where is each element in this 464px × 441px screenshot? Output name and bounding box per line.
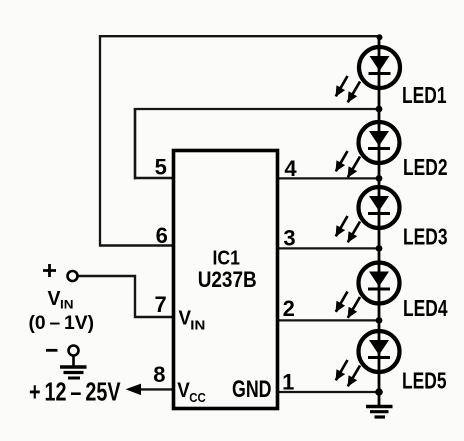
wire from + input terminal (78, 276, 174, 317)
wire LED chain vertical (378, 36, 381, 406)
wire pin5 horizontal (134, 177, 173, 180)
svg-text:1: 1 (282, 369, 294, 394)
node LED2-LED3 junction (376, 175, 383, 182)
wire pin2 to LED4/LED5 node (277, 319, 379, 321)
IC1 box (174, 151, 278, 409)
node top wire to LED1 lead (377, 34, 383, 40)
plus sign (43, 264, 56, 277)
LED1 (336, 47, 400, 102)
minus sign (46, 349, 58, 352)
svg-text:LED4: LED4 (403, 295, 448, 321)
node LED1-LED2 junction (376, 106, 383, 113)
node LED3-LED4 junction (376, 245, 383, 252)
node LED4-LED5 junction (376, 317, 383, 324)
ground (right, below LED5) (366, 407, 393, 418)
svg-text:LED2: LED2 (403, 154, 448, 180)
wire outer loop top horizontal (99, 35, 379, 37)
wire pin6 horizontal (100, 244, 173, 246)
svg-text:LED3: LED3 (403, 224, 448, 250)
svg-text:+ 12 – 25V: + 12 – 25V (29, 376, 121, 406)
svg-text:3: 3 (283, 226, 295, 251)
svg-text:8: 8 (153, 362, 165, 387)
wire pin5 loop vertical (134, 108, 137, 179)
svg-text:LED5: LED5 (402, 368, 447, 394)
svg-text:6: 6 (156, 223, 168, 248)
svg-text:CC: CC (189, 391, 206, 405)
svg-text:IN: IN (190, 317, 205, 332)
svg-text:7: 7 (154, 292, 166, 317)
LED5 (336, 331, 400, 386)
svg-text:4: 4 (284, 156, 297, 181)
LED2 (336, 122, 400, 177)
arrowhead on pin8 wire (126, 384, 142, 396)
svg-text:IN: IN (60, 298, 74, 312)
+ input terminal (68, 271, 78, 281)
wire outer loop vertical (99, 35, 101, 247)
wire pin4 to LED2/LED3 node (277, 177, 379, 179)
svg-text:(0 – 1V): (0 – 1V) (29, 313, 95, 334)
ground (left, at - terminal) (60, 356, 87, 379)
wire pin8 with arrowhead to +12-25V (140, 388, 174, 390)
- input terminal (69, 346, 79, 356)
svg-text:5: 5 (155, 155, 167, 180)
node ground junction (375, 388, 383, 396)
LED3 (336, 187, 400, 242)
svg-text:2: 2 (283, 296, 295, 321)
wire pin5 loop horizontal to LED1/LED2 node (134, 108, 379, 110)
svg-text:GND: GND (232, 376, 272, 403)
svg-text:U237B: U237B (198, 267, 257, 292)
svg-text:LED1: LED1 (402, 82, 447, 108)
LED4 (336, 263, 400, 318)
wire pin3 to LED3/LED4 node (277, 247, 379, 249)
wire pin1 to ground node (277, 391, 379, 393)
